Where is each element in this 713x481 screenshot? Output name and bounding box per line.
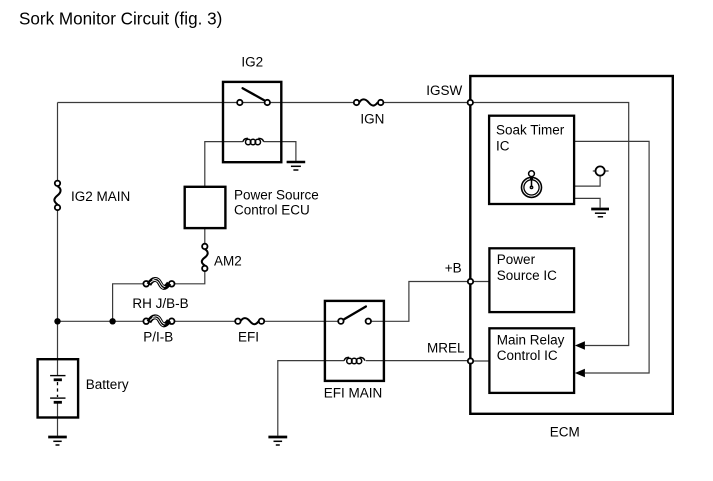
battery cell plates (50, 376, 65, 403)
fusible link RH J/B-B (132, 279, 188, 311)
svg-text:RH J/B-B: RH J/B-B (132, 296, 188, 311)
wire MREL node to Main Relay Control IC (473, 360, 489, 362)
node MREL (468, 358, 473, 363)
wire Soak Timer IC to ground (574, 198, 600, 207)
svg-text:IGSW: IGSW (426, 83, 462, 98)
relay EFI MAIN box (325, 301, 384, 381)
soak timer stopwatch icon (522, 171, 542, 198)
wire Power Source Control ECU to IG2 coil (205, 142, 243, 187)
relay IG2 coil (243, 138, 264, 144)
svg-text:Control IC: Control IC (497, 348, 558, 363)
fuse IGN (354, 99, 385, 126)
fuse EFI (235, 318, 264, 344)
wire main bus (58, 320, 339, 322)
svg-text:EFI: EFI (238, 330, 259, 345)
ECM box (470, 76, 673, 414)
node +B (468, 279, 473, 284)
ground (EFI MAIN coil) (268, 437, 287, 445)
relay EFI MAIN coil (344, 357, 365, 363)
svg-text:EFI MAIN: EFI MAIN (324, 385, 383, 400)
svg-text:Battery: Battery (86, 377, 129, 392)
fusible link P/I-B (143, 316, 174, 344)
fuse AM2 (202, 244, 242, 271)
wire IG2 coil to ground (264, 142, 296, 161)
wire Soak Timer IC to Main Relay Control IC arrow 2 (574, 141, 649, 373)
wire +B node to Power Source IC (473, 281, 489, 283)
main relay control IC box (489, 328, 574, 393)
relay EFI MAIN switch contact right (366, 319, 371, 324)
wire battery to ground (57, 402, 59, 436)
ground (battery) (48, 437, 67, 445)
power source IC box (489, 248, 574, 312)
wire Soak Timer IC to terminal (574, 176, 600, 186)
svg-text:ECM: ECM (550, 424, 580, 439)
battery box (38, 359, 79, 417)
svg-text:Source IC: Source IC (497, 268, 557, 283)
relay IG2 switch blade (243, 88, 264, 100)
junction dot RH branch (109, 318, 115, 324)
wire top horizontal left segment (58, 102, 355, 104)
wire RH J/B-B branch (113, 271, 205, 321)
wire EFI MAIN switch out to +B node (371, 282, 468, 322)
svg-text:Power: Power (497, 252, 536, 267)
wire EFI MAIN coil to MREL node (366, 360, 468, 362)
ground (soak timer) (591, 209, 609, 217)
soak timer IC box (489, 116, 574, 204)
relay EFI MAIN switch contact left (338, 319, 343, 324)
relay EFI MAIN switch blade (344, 307, 366, 320)
relay IG2 switch contact left (237, 100, 242, 105)
junction dot left (54, 318, 60, 324)
svg-text:IC: IC (496, 139, 510, 154)
terminal circle (soak timer output) (593, 170, 609, 172)
relay IG2 switch contact right (265, 100, 270, 105)
arrowhead into Main Relay Control IC (from IGSW line) (575, 341, 585, 350)
fuse IG2 MAIN (54, 181, 130, 211)
wire AM2 to Power Source Control ECU (204, 228, 206, 244)
svg-text:Control ECU: Control ECU (234, 203, 310, 218)
wire left vertical upper (57, 103, 59, 181)
power source control ECU box (185, 187, 226, 228)
relay IG2 box (223, 82, 281, 162)
svg-text:Soak Timer: Soak Timer (496, 123, 565, 138)
wire top horizontal right segment to IGSW node (383, 102, 467, 104)
wire IGSW to Main Relay Control IC arrow 1 (473, 103, 629, 346)
svg-text:IGN: IGN (360, 112, 384, 127)
wire EFI MAIN coil to ground (278, 361, 344, 436)
svg-text:AM2: AM2 (214, 254, 242, 269)
svg-text:Main Relay: Main Relay (497, 332, 565, 347)
svg-text:P/I-B: P/I-B (143, 330, 173, 345)
ground (IG2 relay coil) (287, 162, 306, 170)
svg-text:MREL: MREL (427, 340, 465, 355)
svg-text:IG2 MAIN: IG2 MAIN (71, 189, 130, 204)
svg-text:Power Source: Power Source (234, 187, 319, 202)
node IGSW (468, 100, 473, 105)
wire left vertical lower (57, 210, 59, 376)
svg-text:Sork Monitor Circuit (fig. 3): Sork Monitor Circuit (fig. 3) (19, 10, 222, 29)
svg-text:+B: +B (445, 261, 462, 276)
svg-text:IG2: IG2 (241, 55, 263, 70)
arrowhead into Main Relay Control IC (from Soak Timer) (575, 369, 585, 378)
